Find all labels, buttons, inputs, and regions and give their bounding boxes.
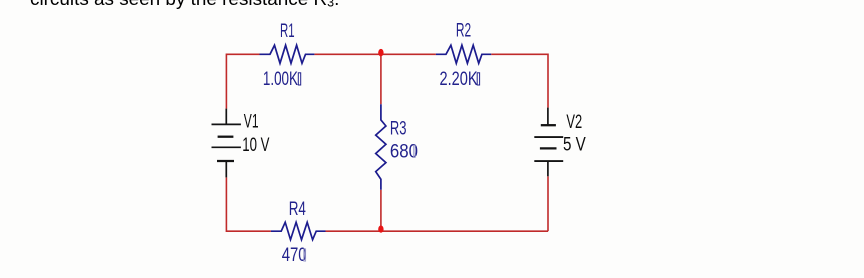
svg-text:1.00K: 1.00K <box>263 68 298 90</box>
svg-text:2.20K: 2.20K <box>440 68 479 89</box>
node junction dot (bottom) <box>378 226 383 233</box>
resistor R2 symbol <box>436 45 491 63</box>
node junction dot (top) <box>378 49 383 56</box>
wire right rail lower <box>547 176 549 231</box>
svg-text:V2: V2 <box>566 112 582 133</box>
svg-text:R4: R4 <box>289 198 306 220</box>
svg-text:V1: V1 <box>244 111 259 133</box>
wire middle branch lower (R3 to bottom node) <box>380 190 382 231</box>
battery V1 symbol <box>212 109 241 178</box>
svg-text:10 V: 10 V <box>242 134 269 156</box>
resistor R4 symbol <box>271 222 326 239</box>
wire top-left segment + left rail upper <box>226 54 259 108</box>
wires <box>226 54 548 231</box>
wire top middle segment <box>314 53 436 55</box>
resistor R3 symbol (vertical) <box>376 104 386 190</box>
wire middle branch upper (node to R3) <box>380 54 382 104</box>
wire left rail lower + bottom-left segment <box>226 177 271 231</box>
wire bottom middle segment <box>326 230 549 232</box>
resistor R1 symbol <box>260 45 315 63</box>
svg-text:circuits as seen by the resist: circuits as seen by the resistance R3. <box>30 0 339 10</box>
svg-text:R2: R2 <box>456 19 471 41</box>
svg-text:R3: R3 <box>390 118 407 139</box>
wire top-right segment + right rail upper <box>491 54 548 107</box>
svg-text:5 V: 5 V <box>563 133 586 155</box>
svg-text:R1: R1 <box>280 21 295 42</box>
svg-text:470: 470 <box>282 243 307 265</box>
battery V2 symbol <box>534 108 563 177</box>
